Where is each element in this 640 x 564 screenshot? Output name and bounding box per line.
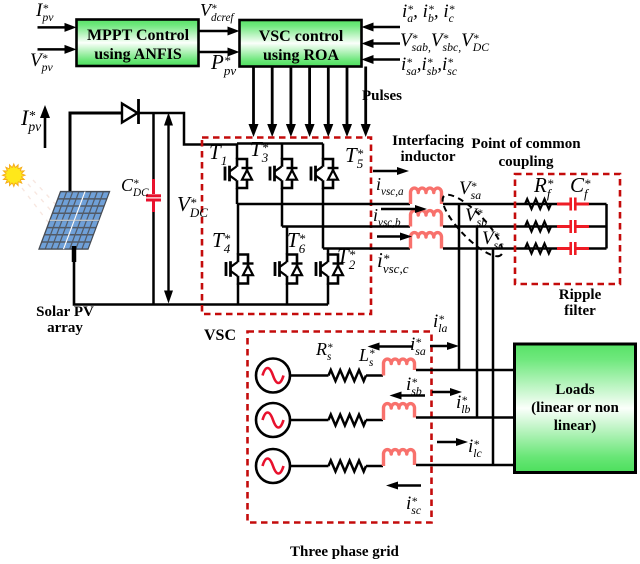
label T1	[209, 142, 227, 166]
arrow Ipv up	[44, 116, 47, 148]
grid inductor Ls phase c	[384, 450, 415, 466]
wire T1 to phase a	[236, 188, 239, 204]
transistor T3	[270, 159, 298, 188]
label ia ib ic	[402, 2, 455, 23]
label Ls	[359, 346, 375, 368]
PCC dashed ellipse	[435, 187, 510, 263]
wire T5 to phase c	[322, 188, 325, 249]
label i vsc,c	[377, 250, 409, 274]
pulse arrow 2	[271, 67, 274, 127]
arrow input Ipv to MPPT	[38, 26, 67, 29]
label Solar PV array	[30, 304, 100, 336]
arrow isc	[396, 484, 421, 486]
label Ipv input	[36, 1, 53, 22]
arrow Ppv MPPT to VSC control	[199, 51, 230, 54]
wire leg T1 top	[236, 144, 239, 160]
VDC measurement double arrow	[167, 124, 169, 201]
label isa grid	[410, 335, 426, 356]
label Interfacing inductor	[388, 133, 468, 165]
MPPT control block	[77, 20, 199, 67]
wire bottom DC bus	[74, 247, 328, 305]
wire inductor to load phase b	[416, 416, 515, 419]
label Vpv input	[30, 51, 53, 72]
ripple filter resistor Rf at y226.5	[525, 222, 551, 232]
wire drop phase a	[458, 204, 461, 370]
label Vsa	[459, 179, 481, 200]
wire source to resistor phase a	[290, 374, 329, 377]
wire top DC bus right	[139, 113, 238, 145]
wire source to resistor phase b	[290, 419, 329, 422]
label Vsc	[482, 229, 503, 250]
top bus of bridge	[237, 142, 323, 145]
ripple filter right bus	[605, 204, 608, 249]
arrow input isa isb isc	[372, 58, 401, 61]
wire T6 bottom	[286, 284, 289, 305]
wire cap to bus at y248.5	[589, 247, 607, 250]
pulse arrow 5	[327, 67, 330, 127]
arrow Vdcref MPPT to VSC control	[199, 30, 230, 33]
label Pulses	[362, 88, 402, 105]
arrow isa	[378, 345, 413, 347]
label Vsab Vsbc Vdc	[400, 31, 489, 52]
wire T2 top	[327, 249, 330, 255]
label isb grid	[406, 375, 422, 396]
wire T2 bottom	[327, 284, 330, 305]
grid resistor Rs phase b	[329, 415, 367, 426]
pulse arrow 6	[346, 67, 349, 127]
wire cap to bus at y204	[589, 203, 607, 206]
label Point of common coupling	[467, 135, 585, 171]
solar PV array panel	[39, 192, 109, 250]
VSC dashed box	[202, 138, 371, 315]
interfacing inductor phase b	[411, 211, 442, 227]
transistor T6	[275, 255, 303, 284]
phase b line to PCC	[443, 225, 557, 228]
label Ripple filter	[540, 287, 620, 319]
AC source phase c	[256, 449, 290, 483]
wire T6 top	[286, 227, 289, 255]
wire drop phase c	[492, 249, 495, 466]
AC source phase a	[256, 359, 290, 393]
arrow i vsc,b	[381, 208, 417, 210]
arrow i vsc,a	[373, 170, 399, 172]
wire T4 top	[237, 204, 240, 255]
wire drop phase b	[476, 227, 479, 418]
phase b line	[282, 225, 410, 228]
wire cap to bus at y226.5	[589, 225, 607, 228]
grid resistor Rs phase c	[329, 461, 367, 472]
sun rays dashed	[22, 188, 58, 235]
label T6	[287, 230, 305, 254]
transistor T2	[316, 255, 344, 284]
grid inductor Ls phase b	[384, 404, 415, 420]
three phase grid dashed box	[248, 332, 432, 523]
wire resistor to inductor phase b	[366, 419, 383, 422]
wire resistor to inductor phase c	[366, 465, 383, 468]
label T5	[345, 145, 363, 169]
label T3	[250, 139, 268, 163]
arrow i vsc,c	[377, 235, 402, 237]
label ilc	[468, 437, 482, 458]
label i vsc,a	[376, 175, 404, 197]
capacitor CDC branch	[152, 113, 155, 179]
label CDC	[121, 176, 149, 198]
wire leg T5 top	[322, 144, 325, 160]
label T4	[212, 230, 230, 254]
interfacing inductor phase a	[411, 188, 442, 204]
label Ppv	[211, 52, 236, 76]
arrow input Vpv to MPPT	[38, 48, 67, 51]
VSC control block	[240, 20, 362, 67]
label VSC control using ROA	[243, 27, 359, 65]
label Vsb	[465, 206, 487, 227]
wire T3 to phase b	[281, 188, 284, 227]
wire top DC bus left	[70, 113, 122, 192]
grid inductor Ls phase a	[384, 359, 415, 375]
ripple filter capacitor Cf at y248.5	[557, 247, 570, 250]
diode D	[122, 104, 138, 123]
AC source phase b	[256, 403, 290, 437]
pulse arrow 4	[308, 67, 311, 127]
label T2	[337, 246, 355, 270]
phase c line	[323, 247, 410, 250]
arrow input ia ib ic	[372, 26, 401, 29]
label Rs	[316, 340, 333, 362]
arrow input Vsab Vsbc Vdc	[372, 42, 401, 45]
pulse arrow 7	[364, 67, 367, 127]
label Rf	[534, 175, 553, 199]
label Vdcref	[200, 1, 234, 23]
transistor T5	[311, 159, 339, 188]
wire inductor to load phase a	[416, 369, 515, 372]
wire source to resistor phase c	[290, 465, 329, 468]
wire inductor to load phase c	[416, 464, 515, 467]
label ilb	[456, 393, 470, 414]
ripple filter dashed box	[515, 174, 620, 284]
arrow isb	[400, 394, 426, 396]
label Three phase grid	[290, 544, 399, 561]
phase a line to PCC	[443, 203, 557, 206]
phase c line to PCC	[443, 247, 557, 250]
label Ipv at panel	[21, 107, 41, 133]
label MPPT Control using ANFIS	[80, 26, 196, 64]
label i vsc,b	[373, 206, 401, 228]
loads block	[515, 344, 636, 473]
grid resistor Rs phase a	[329, 370, 367, 381]
transistor T1	[225, 159, 253, 188]
interfacing inductor phase c	[411, 233, 442, 249]
pulse arrow 1	[252, 67, 255, 127]
arrow ilb	[432, 391, 452, 393]
arrow ila	[430, 345, 449, 347]
label isc grid	[406, 494, 421, 515]
phase a line	[237, 203, 410, 206]
wire T4 bottom	[237, 284, 240, 305]
ripple filter capacitor Cf at y204	[557, 203, 570, 206]
ripple filter resistor Rf at y204	[525, 199, 551, 209]
label Cf	[570, 175, 591, 199]
wire leg T3 top	[281, 144, 284, 160]
label isa isb isc	[401, 55, 457, 76]
label ila	[433, 312, 447, 333]
pulse arrow 3	[289, 67, 292, 127]
arrow ilc	[437, 441, 458, 443]
label Loads	[517, 381, 633, 435]
wire panel to bottom bus	[72, 246, 77, 262]
label VDC	[177, 194, 208, 218]
ripple filter resistor Rf at y248.5	[525, 244, 551, 254]
transistor T4	[226, 255, 254, 284]
ripple filter capacitor Cf at y226.5	[557, 225, 570, 228]
sun	[3, 164, 25, 186]
wire resistor to inductor phase a	[366, 374, 383, 377]
label VSC	[204, 327, 236, 345]
